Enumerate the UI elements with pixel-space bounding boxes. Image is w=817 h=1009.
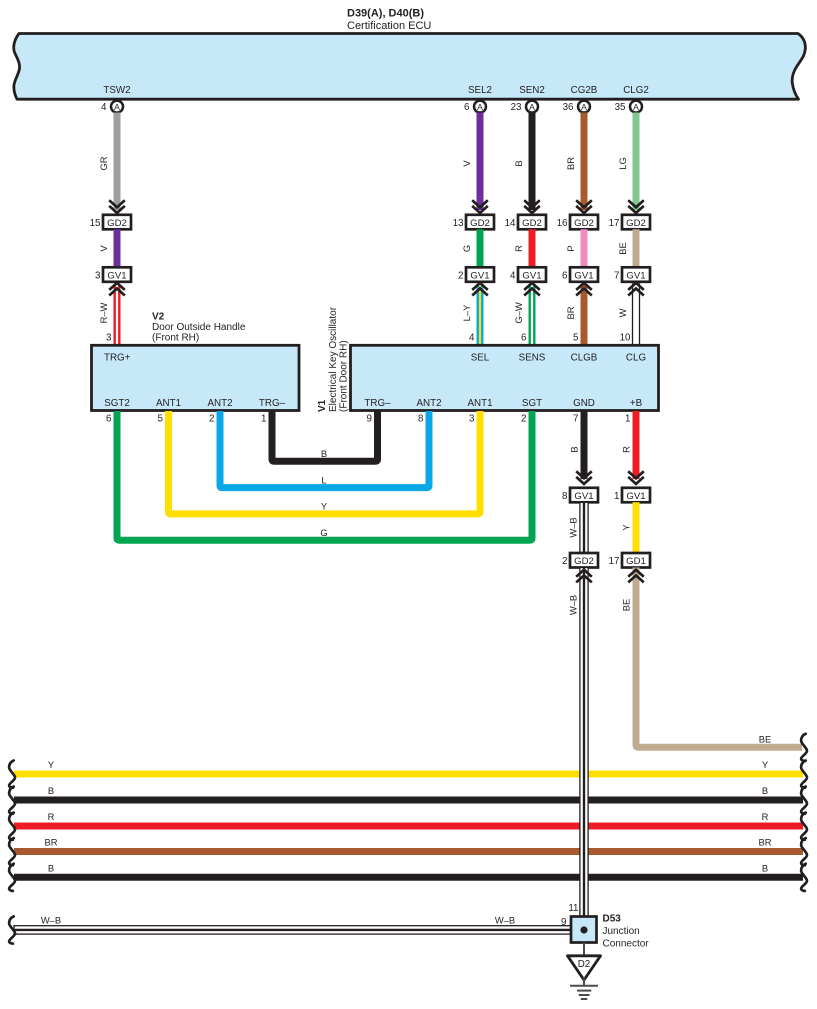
svg-text:SGT: SGT xyxy=(522,398,542,409)
up arrows out of GD2 xyxy=(576,570,592,583)
svg-text:Y: Y xyxy=(48,759,55,770)
pin number 9 under box (x=377.5) xyxy=(367,414,372,425)
svg-text:(Front Door RH): (Front Door RH) xyxy=(339,340,350,412)
bus wire Y right torn edge xyxy=(801,761,807,788)
svg-text:A: A xyxy=(581,102,587,112)
svg-text:A: A xyxy=(477,102,483,112)
V2 pin TRG+ xyxy=(104,353,131,364)
wire label W-B (mid) xyxy=(495,915,515,926)
bus wire B left torn edge xyxy=(9,864,15,891)
svg-text:4: 4 xyxy=(101,102,107,113)
wire label L xyxy=(321,474,326,485)
connector GV1 pin 4 xyxy=(510,267,546,282)
wire R xyxy=(529,229,536,267)
svg-text:Junction: Junction xyxy=(603,926,640,937)
wire label W-B (left) xyxy=(41,915,61,926)
wire GR from ECU pin xyxy=(114,113,121,211)
V1 pin CLG xyxy=(626,353,646,364)
svg-text:R: R xyxy=(48,811,55,822)
svg-text:BR: BR xyxy=(44,837,57,848)
bus wire B (y=877.2) xyxy=(14,874,803,881)
up arrows out of GV1 (x=532) xyxy=(524,283,540,296)
svg-text:CG2B: CG2B xyxy=(571,85,598,96)
svg-text:P: P xyxy=(565,245,576,251)
wire label BE xyxy=(617,242,628,255)
svg-text:GR: GR xyxy=(98,156,109,170)
svg-text:GV1: GV1 xyxy=(470,271,489,282)
svg-text:L: L xyxy=(321,474,326,485)
connector GV1 pin 1 xyxy=(614,488,650,503)
svg-text:36: 36 xyxy=(563,102,574,113)
svg-text:Y: Y xyxy=(762,759,769,770)
V1 pin ANT1 xyxy=(467,398,492,409)
bus wire BR (y=851.5) xyxy=(14,848,803,855)
up arrows out of GD1 xyxy=(628,570,644,583)
wire G loop SGT2 to SGT xyxy=(117,411,532,540)
connector GV1 pin 2 xyxy=(458,267,494,282)
wire label BE (vertical) xyxy=(621,599,632,612)
svg-text:Y: Y xyxy=(321,501,328,512)
svg-text:23: 23 xyxy=(511,102,522,113)
svg-text:TRG–: TRG– xyxy=(259,398,286,409)
ECU pin label CG2B xyxy=(571,85,598,96)
wire P xyxy=(581,229,588,267)
svg-text:SGT2: SGT2 xyxy=(104,398,130,409)
connector GD2 pin 2 xyxy=(562,553,598,568)
wire BR from ECU pin xyxy=(581,113,588,211)
svg-text:2: 2 xyxy=(562,556,567,567)
pin number 2 under box (x=532) xyxy=(521,414,526,425)
up arrows out of GV1 (x=117) xyxy=(109,283,125,296)
wire label B xyxy=(321,448,327,459)
wire W-B GV1 to GD2 xyxy=(580,502,588,553)
bus wire B right label xyxy=(762,785,768,796)
wire label R–W xyxy=(98,302,109,323)
down arrows into GD2 (x=117) xyxy=(109,200,125,213)
svg-text:B: B xyxy=(48,862,54,873)
svg-text:SEL: SEL xyxy=(471,353,490,364)
wire label V xyxy=(461,160,472,167)
wire R from +B pin 1 xyxy=(633,411,640,479)
pin number 5 under box (x=168.5) xyxy=(158,414,164,425)
svg-text:9: 9 xyxy=(561,917,566,928)
V1 pin SGT xyxy=(522,398,542,409)
svg-text:GV1: GV1 xyxy=(574,271,593,282)
torn edge of W-B wire xyxy=(9,916,15,943)
svg-text:TRG–: TRG– xyxy=(364,398,391,409)
ECU pin label TSW2 xyxy=(103,85,130,96)
connector circle A pin 35 (x=636) xyxy=(615,101,642,113)
junction node dot xyxy=(580,926,587,933)
svg-text:B: B xyxy=(321,448,327,459)
down arrows into GD2 (x=584) xyxy=(576,200,592,213)
svg-text:W–B: W–B xyxy=(568,595,579,615)
bus wire R right label xyxy=(762,811,769,822)
svg-text:L–Y: L–Y xyxy=(461,304,472,321)
svg-text:6: 6 xyxy=(562,271,568,282)
wire label Y xyxy=(321,501,328,512)
Certification ECU band xyxy=(14,34,806,100)
svg-text:B: B xyxy=(513,160,524,166)
svg-text:ANT2: ANT2 xyxy=(416,398,441,409)
wire R–W into box pin 3 xyxy=(114,284,121,345)
svg-text:GD2: GD2 xyxy=(470,218,490,229)
svg-text:Y: Y xyxy=(621,524,632,531)
svg-text:Electrical Key Oscillator: Electrical Key Oscillator xyxy=(328,306,339,412)
svg-text:CLGB: CLGB xyxy=(571,353,598,364)
svg-text:GD2: GD2 xyxy=(626,218,646,229)
wire label G–W xyxy=(513,302,524,324)
svg-text:W–B: W–B xyxy=(568,517,579,537)
down arrows into GD2 (x=480) xyxy=(472,200,488,213)
down arrows into GD2 (x=532) xyxy=(524,200,540,213)
wire G–W into box pin 6 xyxy=(529,284,536,345)
svg-text:GV1: GV1 xyxy=(522,271,541,282)
bus wire Y (y=774) xyxy=(14,771,803,778)
svg-text:11: 11 xyxy=(568,903,578,914)
component V2 Door Outside Handle box xyxy=(92,345,300,410)
bus wire B left torn edge xyxy=(9,787,15,814)
connector circle A pin 36 (x=584) xyxy=(563,101,590,113)
pin number 2 under box (x=220) xyxy=(209,414,214,425)
bus wire BR right torn edge xyxy=(801,838,807,865)
pin number 6 under box (x=117) xyxy=(106,414,112,425)
svg-text:W–B: W–B xyxy=(41,915,61,926)
pin number 11 xyxy=(568,903,578,914)
wire Y loop ANT1 to ANT1 xyxy=(169,411,481,514)
pin number 8 under box (x=429) xyxy=(418,414,424,425)
connector GD1 pin 17 xyxy=(609,553,650,568)
svg-text:D2: D2 xyxy=(578,959,591,970)
svg-text:GD2: GD2 xyxy=(574,218,594,229)
svg-text:GD2: GD2 xyxy=(522,218,542,229)
V1 pin SENS xyxy=(519,353,546,364)
ECU pin label SEN2 xyxy=(519,85,545,96)
V2 pin SGT2 xyxy=(104,398,130,409)
bus wire B right torn edge xyxy=(801,864,807,891)
svg-text:GV1: GV1 xyxy=(574,491,593,502)
svg-text:BE: BE xyxy=(759,734,772,745)
svg-text:TSW2: TSW2 xyxy=(103,85,130,96)
bus wire Y left torn edge xyxy=(9,761,15,788)
connector GV1 pin 7 xyxy=(614,267,650,282)
ground symbol xyxy=(570,978,598,999)
V1 pin +B xyxy=(630,398,643,409)
svg-text:3: 3 xyxy=(106,333,112,344)
svg-text:(Front RH): (Front RH) xyxy=(152,333,199,344)
pin number 9 xyxy=(561,917,566,928)
ECU pin label CLG2 xyxy=(623,85,649,96)
svg-text:GD2: GD2 xyxy=(107,218,127,229)
wire BR into box pin 5 xyxy=(581,284,588,345)
wire label L–Y xyxy=(461,304,472,321)
wire BE xyxy=(633,229,640,267)
svg-text:GND: GND xyxy=(573,398,595,409)
svg-text:GV1: GV1 xyxy=(107,271,126,282)
svg-text:B: B xyxy=(762,785,768,796)
pin number 3 under box (x=480) xyxy=(469,414,475,425)
connector circle A pin 4 (x=117) xyxy=(101,101,123,113)
svg-text:3: 3 xyxy=(469,414,475,425)
svg-text:8: 8 xyxy=(562,491,568,502)
torn edge of BE wire xyxy=(801,734,807,761)
svg-text:B: B xyxy=(762,862,768,873)
svg-text:GV1: GV1 xyxy=(626,271,645,282)
svg-text:V2: V2 xyxy=(152,312,165,323)
component V2 title xyxy=(152,312,246,344)
wire label BR xyxy=(565,157,576,170)
connector GD2 pin 13 xyxy=(453,215,494,230)
svg-text:W: W xyxy=(617,308,628,317)
svg-text:4: 4 xyxy=(469,333,475,344)
svg-text:2: 2 xyxy=(209,414,214,425)
svg-text:4: 4 xyxy=(510,271,516,282)
svg-text:G: G xyxy=(461,245,472,252)
svg-text:6: 6 xyxy=(106,414,112,425)
wire G xyxy=(477,229,484,267)
bus wire B right torn edge xyxy=(801,787,807,814)
connector GV1 pin 6 xyxy=(562,267,598,282)
wire label B xyxy=(569,446,580,452)
svg-text:13: 13 xyxy=(453,218,464,229)
wire label Y xyxy=(621,524,632,531)
wire Y GV1 to GD1 xyxy=(633,502,640,553)
wire LG from ECU pin xyxy=(633,113,640,211)
svg-text:A: A xyxy=(633,102,639,112)
svg-text:7: 7 xyxy=(614,271,619,282)
svg-text:V: V xyxy=(98,245,109,252)
wire V from ECU pin xyxy=(477,113,484,211)
svg-text:7: 7 xyxy=(573,414,578,425)
connector circle A pin 23 (x=532) xyxy=(511,101,538,113)
svg-text:V: V xyxy=(461,160,472,167)
bus wire BR left label xyxy=(44,837,57,848)
wire B from GND pin 7 xyxy=(581,411,588,479)
down arrows into GD2 (x=636) xyxy=(628,200,644,213)
svg-text:10: 10 xyxy=(620,333,631,344)
pin number 1 under box (x=272) xyxy=(261,414,266,425)
wire label GR xyxy=(98,156,109,170)
connector circle A pin 6 (x=480) xyxy=(464,101,486,113)
svg-text:15: 15 xyxy=(90,218,101,229)
svg-text:5: 5 xyxy=(158,414,164,425)
wire label BE (right) xyxy=(759,734,772,745)
bus wire BR left torn edge xyxy=(9,838,15,865)
down arrows into GV1 pin 1 xyxy=(628,471,644,484)
svg-text:B: B xyxy=(48,785,54,796)
junction connector D53 box xyxy=(571,917,597,943)
up arrows out of GV1 (x=480) xyxy=(472,283,488,296)
D53 label xyxy=(603,914,650,950)
bus wire R (y=826) xyxy=(14,823,803,830)
svg-text:B: B xyxy=(569,446,580,452)
wire B from ECU pin xyxy=(529,113,536,211)
svg-text:D39(A), D40(B): D39(A), D40(B) xyxy=(347,8,424,20)
pin number 1 under box (x=636) xyxy=(625,414,630,425)
bus wire R left torn edge xyxy=(9,813,15,840)
wire L loop ANT2 to ANT2 xyxy=(220,411,429,488)
V1 pin TRG- xyxy=(364,398,391,409)
svg-text:G: G xyxy=(320,527,327,538)
svg-text:R: R xyxy=(762,811,769,822)
svg-text:1: 1 xyxy=(614,491,619,502)
connector GV1 pin 8 xyxy=(562,488,598,503)
wire label G xyxy=(461,245,472,252)
svg-text:W–B: W–B xyxy=(495,915,515,926)
V2 pin ANT1 xyxy=(156,398,181,409)
wire W-B down to D53 xyxy=(580,568,588,917)
svg-text:BR: BR xyxy=(758,837,771,848)
bus wire Y right label xyxy=(762,759,769,770)
up arrows out of GV1 (x=584) xyxy=(576,283,592,296)
svg-text:+B: +B xyxy=(630,398,643,409)
pin number 3 xyxy=(106,333,112,344)
pin number 10 xyxy=(620,333,631,344)
V2 pin ANT2 xyxy=(207,398,232,409)
svg-text:1: 1 xyxy=(261,414,266,425)
wire label V xyxy=(98,245,109,252)
wire label LG xyxy=(617,157,628,170)
svg-text:17: 17 xyxy=(609,218,620,229)
svg-text:SEL2: SEL2 xyxy=(468,85,492,96)
svg-text:ANT1: ANT1 xyxy=(156,398,181,409)
svg-text:BR: BR xyxy=(565,306,576,319)
wire label B xyxy=(513,160,524,166)
svg-text:5: 5 xyxy=(573,333,579,344)
svg-text:R–W: R–W xyxy=(98,302,109,323)
svg-text:9: 9 xyxy=(367,414,372,425)
bus wire R right torn edge xyxy=(801,813,807,840)
bus wire Y left label xyxy=(48,759,55,770)
svg-text:14: 14 xyxy=(505,218,516,229)
connector GD2 pin 15 xyxy=(90,215,131,230)
svg-text:GV1: GV1 xyxy=(626,491,645,502)
bus wire BR right label xyxy=(758,837,771,848)
bus wire B (y=800) xyxy=(14,797,803,804)
svg-text:16: 16 xyxy=(557,218,568,229)
svg-text:SENS: SENS xyxy=(519,353,546,364)
svg-text:6: 6 xyxy=(521,333,527,344)
svg-text:Certification ECU: Certification ECU xyxy=(347,20,431,32)
svg-text:35: 35 xyxy=(615,102,626,113)
svg-text:SEN2: SEN2 xyxy=(519,85,545,96)
svg-text:6: 6 xyxy=(464,102,470,113)
V1 pin GND xyxy=(573,398,595,409)
svg-text:2: 2 xyxy=(521,414,526,425)
connector GD2 pin 17 xyxy=(609,215,650,230)
connector GD2 pin 16 xyxy=(557,215,598,230)
svg-text:17: 17 xyxy=(609,556,620,567)
svg-text:R: R xyxy=(621,446,632,453)
V1 pin ANT2 xyxy=(416,398,441,409)
wire W-B horizontal to D53 xyxy=(14,926,571,934)
svg-text:G–W: G–W xyxy=(513,302,524,324)
V1 pin CLGB xyxy=(571,353,598,364)
wire L–Y into box pin 4 xyxy=(477,284,484,345)
wire BE to torn edge xyxy=(636,568,802,748)
svg-text:A: A xyxy=(114,102,120,112)
wire label W xyxy=(617,308,628,317)
wire V xyxy=(114,229,121,267)
down arrows into GV1 pin 8 xyxy=(576,471,592,484)
V1 pin SEL xyxy=(471,353,490,364)
svg-text:A: A xyxy=(529,102,535,112)
component V1 rotated title xyxy=(317,306,350,412)
connector GV1 pin 3 xyxy=(95,267,131,282)
svg-text:BE: BE xyxy=(617,242,628,255)
svg-text:BR: BR xyxy=(565,157,576,170)
bus wire B right label xyxy=(762,862,768,873)
V2 pin TRG- xyxy=(259,398,286,409)
wire label W-B xyxy=(568,517,579,537)
svg-text:V1: V1 xyxy=(317,399,328,412)
bus wire B left label xyxy=(48,785,54,796)
bus wire R left label xyxy=(48,811,55,822)
wire to ground xyxy=(583,943,585,956)
wire W into box pin 10 xyxy=(633,284,640,345)
wire B loop TRG- to TRG- xyxy=(272,411,378,461)
wire label R xyxy=(513,245,524,252)
svg-text:GD2: GD2 xyxy=(574,556,594,567)
svg-text:Connector: Connector xyxy=(603,939,650,950)
up arrows out of GV1 (x=636) xyxy=(628,283,644,296)
svg-text:GD1: GD1 xyxy=(626,556,646,567)
ground triangle D2 xyxy=(568,956,601,980)
connector GD2 pin 14 xyxy=(505,215,546,230)
component V1 Electrical Key Oscillator box xyxy=(351,345,659,410)
svg-text:CLG2: CLG2 xyxy=(623,85,649,96)
wire label G xyxy=(320,527,327,538)
svg-text:LG: LG xyxy=(617,157,628,170)
wire label R xyxy=(621,446,632,453)
svg-text:8: 8 xyxy=(418,414,424,425)
pin number 4 xyxy=(469,333,475,344)
svg-text:BE: BE xyxy=(621,599,632,612)
ECU title D39(A), D40(B) xyxy=(347,8,431,33)
svg-text:TRG+: TRG+ xyxy=(104,353,131,364)
bus wire B left label xyxy=(48,862,54,873)
svg-text:Door Outside Handle: Door Outside Handle xyxy=(152,322,246,333)
svg-text:3: 3 xyxy=(95,271,101,282)
pin number 7 under box (x=584) xyxy=(573,414,578,425)
svg-text:1: 1 xyxy=(625,414,630,425)
wire label BR xyxy=(565,306,576,319)
wire label W-B (lower) xyxy=(568,595,579,615)
svg-text:2: 2 xyxy=(458,271,463,282)
svg-text:D53: D53 xyxy=(603,914,622,925)
svg-text:ANT1: ANT1 xyxy=(467,398,492,409)
wire label P xyxy=(565,245,576,251)
ECU pin label SEL2 xyxy=(468,85,492,96)
svg-text:CLG: CLG xyxy=(626,353,646,364)
svg-text:R: R xyxy=(513,245,524,252)
pin number 6 xyxy=(521,333,527,344)
pin number 5 xyxy=(573,333,579,344)
svg-text:ANT2: ANT2 xyxy=(207,398,232,409)
